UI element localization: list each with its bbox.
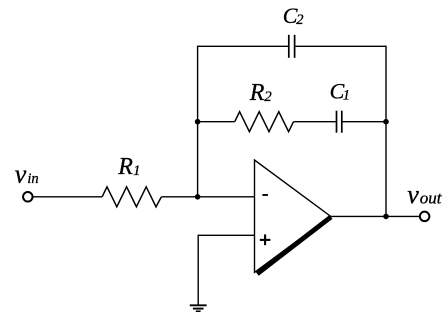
wire: between R2 and C1 [294,121,337,123]
ground [190,305,207,311]
svg-text:in: in [27,171,38,187]
node junction dot input [195,194,201,200]
node junction dot left R2 [195,119,201,125]
svg-text:R: R [249,80,265,106]
wire: vin to R1 [33,196,102,198]
op-amp U1 triangle [255,160,331,272]
wire: right vertical feedback wire [385,46,387,217]
wire: C1 to right vertical [342,121,386,123]
svg-text:1: 1 [343,87,350,103]
resistor R2 [235,112,294,132]
op-amp thick bottom edge [257,217,331,274]
wire: op-amp output [330,215,419,217]
wire: top feedback wire right segment from C2 [295,45,386,47]
wire: ground stem [197,235,199,305]
svg-text:v: v [15,160,27,189]
svg-text:v: v [407,180,419,209]
node junction dot output [383,214,389,220]
svg-text:1: 1 [133,163,141,179]
resistor R1 [102,187,161,207]
wire: non-inverting input [198,234,254,236]
terminal vout circle [420,212,430,222]
svg-text:R: R [117,154,133,180]
svg-text:2: 2 [264,89,272,105]
wire: top feedback wire left segment to C2 [198,45,289,47]
wire: left vertical feedback wire [197,46,199,198]
svg-text:out: out [420,189,443,208]
terminal vin circle [23,192,33,202]
wire: R1 to op-amp inverting input [161,196,254,198]
capacitor C1 [337,111,342,133]
op-amp minus sign [262,194,268,196]
op-amp plus sign [260,234,271,245]
svg-text:2: 2 [296,12,303,28]
wire: R2 branch left segment [198,121,235,123]
capacitor C2 [289,35,295,58]
node junction dot right R2C1 [383,119,389,125]
